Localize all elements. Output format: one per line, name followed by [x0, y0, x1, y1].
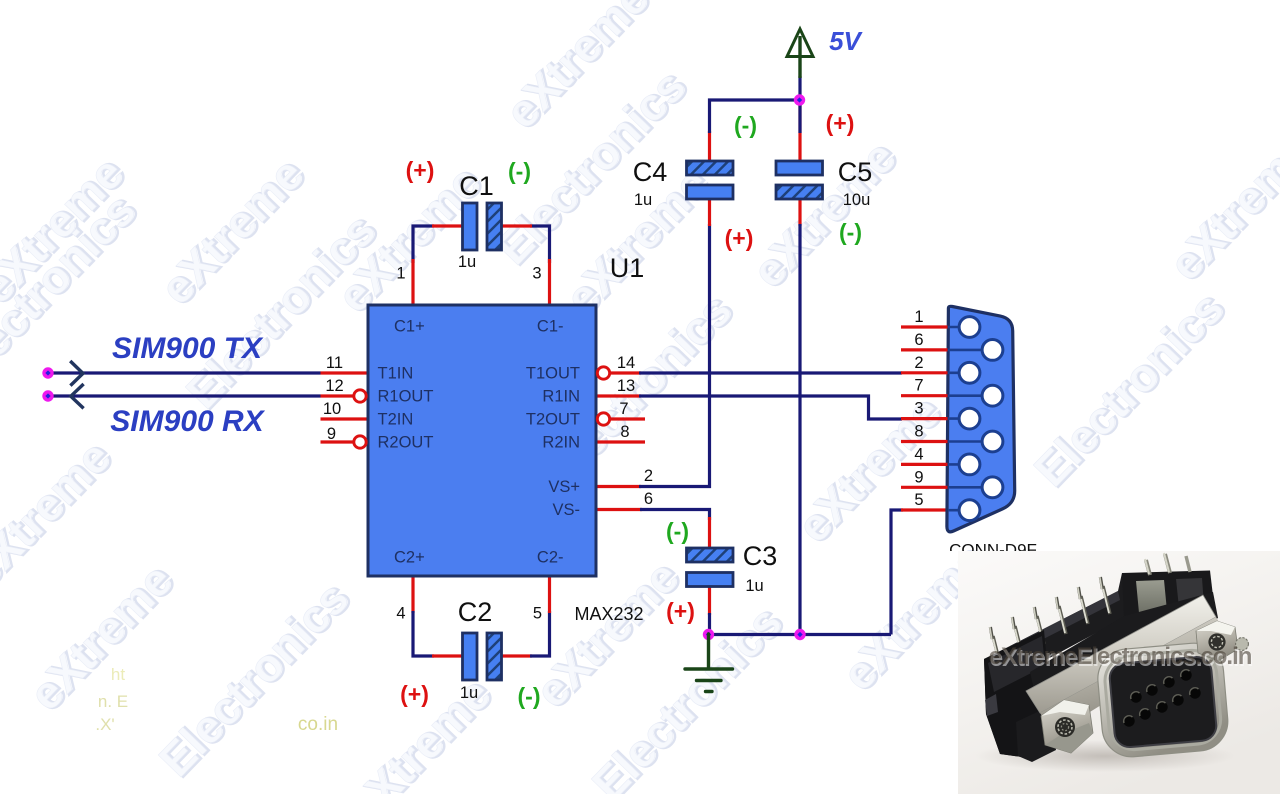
- pin stub DB9-6 (red): [901, 348, 948, 351]
- photo left block notch: [985, 694, 998, 716]
- svg-text:4: 4: [914, 445, 923, 463]
- capacitor C5 plate top: [776, 161, 823, 175]
- svg-text:C3: C3: [743, 541, 778, 571]
- svg-text:MAX232: MAX232: [574, 604, 643, 624]
- watermark Electronics: [149, 571, 361, 788]
- photo D-shell inner shade: [1103, 648, 1223, 751]
- svg-text:SIM900 RX: SIM900 RX: [110, 405, 265, 438]
- pin stub DB9-9 (red): [901, 486, 948, 489]
- capacitor C4 plate bottom: [687, 185, 734, 199]
- svg-text:co.in: co.in: [298, 714, 338, 735]
- svg-text:C1+: C1+: [394, 318, 425, 336]
- svg-text:(-): (-): [734, 112, 757, 138]
- svg-text:C2: C2: [458, 597, 493, 627]
- svg-text:1u: 1u: [745, 577, 763, 595]
- svg-text:SIM900 TX: SIM900 TX: [112, 332, 264, 365]
- watermark eXtreme: [787, 384, 953, 553]
- svg-text:1: 1: [914, 308, 923, 326]
- node SIM900 RX terminal: [42, 390, 53, 401]
- svg-text:n. E: n. E: [98, 692, 128, 711]
- svg-text:C1-: C1-: [537, 318, 564, 336]
- J1 pin 8 socket: [982, 431, 1003, 452]
- svg-text:5: 5: [914, 491, 923, 509]
- wire C2 right red: [501, 654, 532, 657]
- watermark eXtreme: [742, 129, 908, 298]
- pin stub 13 R1IN (red): [597, 394, 641, 397]
- pin stub 3 (red): [548, 259, 551, 305]
- pin stub 4 (red): [411, 577, 414, 613]
- J1 pin 1 socket: [959, 317, 980, 338]
- value label CONN-D9F (clipped by photo): [949, 541, 1037, 560]
- watermark eXtreme: [19, 552, 185, 721]
- watermark eXtreme: [0, 429, 122, 598]
- J1 pin 1 lead: [948, 326, 970, 329]
- junction 5V node: [794, 94, 805, 105]
- wire VS- red drop to C3: [708, 517, 711, 549]
- wire C4 top red: [708, 131, 711, 162]
- pin bubble 7 T2OUT: [597, 413, 609, 425]
- wire C5 to ground rail: [798, 224, 801, 635]
- pin stub 14 T1OUT (red): [610, 371, 641, 374]
- svg-text:5: 5: [533, 605, 542, 623]
- J1 pin 5 lead: [948, 509, 970, 512]
- wire C2 to pin5: [530, 611, 550, 656]
- photo watermark text: [989, 643, 1253, 672]
- watermark eXtreme: [327, 154, 493, 323]
- J1 pin 6 lead: [948, 349, 993, 352]
- svg-text:1u: 1u: [458, 253, 476, 271]
- watermark Electronics: [486, 59, 698, 276]
- capacitor C1 plate left: [463, 203, 478, 250]
- photo black body lower part: [1030, 592, 1218, 716]
- wire C3 to ground node: [708, 613, 711, 635]
- wire DB9 pin5 drop: [891, 510, 903, 635]
- pin stub DB9-1 (red): [901, 325, 948, 328]
- svg-text:R2IN: R2IN: [542, 434, 580, 452]
- pin stub DB9-5 (red): [901, 508, 948, 511]
- watermark eXtreme: [832, 532, 998, 701]
- svg-text:8: 8: [620, 423, 629, 441]
- watermark eXtreme: [525, 549, 691, 718]
- svg-text:(-): (-): [839, 219, 862, 245]
- svg-text:(+): (+): [406, 157, 435, 183]
- svg-text:(+): (+): [725, 225, 754, 251]
- J1 pin 7 lead: [948, 394, 993, 397]
- J1 pin 7 socket: [982, 385, 1003, 406]
- photo D-shell ring: [1095, 641, 1230, 760]
- wire pin1 to C1: [413, 226, 434, 263]
- photo left block facet: [988, 636, 1045, 692]
- J1 pin 2 lead: [948, 371, 970, 374]
- wire T1OUT to DB9 pin2: [639, 371, 902, 374]
- pin bubble 14 T1OUT: [597, 367, 609, 379]
- J1 pin 6 socket: [982, 340, 1003, 361]
- photo shadow: [975, 740, 1235, 772]
- svg-text:(-): (-): [666, 518, 689, 544]
- watermark eXtreme: [337, 666, 503, 794]
- pin stub DB9-3 (red): [901, 417, 948, 420]
- power symbol 5V: [787, 29, 813, 78]
- photo black rear block: [1121, 571, 1213, 619]
- photo black band top facet: [1010, 591, 1120, 654]
- watermark Electronics: [582, 595, 794, 794]
- watermark Electronics: [176, 203, 388, 420]
- svg-text:C4: C4: [633, 157, 668, 187]
- svg-text:C5: C5: [838, 157, 873, 187]
- svg-text:VS+: VS+: [548, 478, 580, 496]
- svg-text:C2-: C2-: [537, 549, 564, 567]
- ground symbol: [685, 634, 733, 692]
- svg-text:5V: 5V: [829, 26, 863, 56]
- svg-text:6: 6: [914, 331, 923, 349]
- svg-text:3: 3: [914, 400, 923, 418]
- node SIM900 TX terminal: [42, 367, 53, 378]
- watermark eXtreme: [0, 145, 135, 314]
- wire C5 top red: [798, 98, 801, 162]
- watermark eXtreme: [150, 146, 316, 315]
- svg-text:4: 4: [396, 605, 405, 623]
- wire 5V to C4 corner: [710, 100, 801, 133]
- op-amp U1 MAX232 body: [368, 305, 596, 576]
- svg-text:R2OUT: R2OUT: [378, 434, 434, 452]
- wire R1IN to DB9 pin3: [639, 396, 902, 419]
- pin stub 5 (red): [548, 577, 551, 613]
- photo black face bevel: [1109, 656, 1218, 749]
- svg-text:11: 11: [326, 354, 343, 372]
- wire C3 bottom red: [708, 586, 711, 615]
- svg-text:10: 10: [323, 400, 341, 418]
- svg-text:12: 12: [325, 377, 343, 395]
- wire C4 bottom red: [708, 198, 711, 226]
- svg-text:6: 6: [644, 490, 653, 508]
- svg-text:9: 9: [914, 468, 923, 486]
- J1 pin 3 lead: [948, 417, 970, 420]
- svg-text:C2+: C2+: [394, 549, 425, 567]
- photo bottom foot: [1016, 706, 1056, 762]
- wire C5 top navy over: [798, 98, 801, 133]
- J1 pin 4 lead: [948, 463, 970, 466]
- pin stub DB9-8 (red): [901, 440, 948, 443]
- svg-text:1u: 1u: [460, 684, 478, 702]
- svg-text:3: 3: [532, 265, 541, 283]
- svg-text:T1OUT: T1OUT: [526, 365, 580, 383]
- svg-text:R1IN: R1IN: [542, 388, 580, 406]
- wire SIM900 RX net: [48, 394, 321, 397]
- pin stub 12 R1OUT (red): [321, 394, 355, 397]
- svg-text:1u: 1u: [634, 191, 652, 209]
- svg-text:U1: U1: [610, 253, 645, 283]
- watermark Electronics: [1024, 281, 1236, 498]
- pin stub 10 T2IN (red): [321, 417, 367, 420]
- svg-text:ht: ht: [111, 665, 125, 684]
- junction ground node B: [794, 629, 805, 640]
- wire pin4 to C2: [413, 611, 434, 656]
- pin stub 11 T1IN (red): [321, 371, 367, 374]
- photo left jack screw: [1041, 700, 1093, 753]
- pin stub DB9-4 (red): [901, 463, 948, 466]
- svg-text:7: 7: [619, 400, 628, 418]
- pin stub 9 R2OUT (red): [321, 440, 355, 443]
- watermark eXtreme: [1159, 122, 1280, 291]
- watermark Electronics: [0, 183, 147, 400]
- pin stub 2 VS+ (red): [597, 485, 641, 488]
- photo rear slot dark: [1176, 578, 1204, 608]
- J1 pin 9 lead: [948, 486, 993, 489]
- photo black pin band: [984, 573, 1124, 757]
- J1 pin 8 lead: [948, 440, 993, 443]
- svg-text:2: 2: [644, 467, 653, 485]
- svg-text:C1: C1: [459, 171, 494, 201]
- watermark Electronics: [532, 283, 744, 500]
- pin stub 8 R2IN (red): [597, 440, 645, 443]
- photo left black block: [984, 630, 1052, 757]
- J1 pin 5 socket: [959, 500, 980, 521]
- svg-text:T2IN: T2IN: [378, 411, 414, 429]
- photo metal shell wedge: [1040, 617, 1225, 728]
- pin stub 7 T2OUT (red): [610, 417, 645, 420]
- wire C1 right red: [501, 224, 532, 227]
- wire VS- to C3: [640, 510, 710, 521]
- photo face holes: [1123, 669, 1200, 726]
- J1 pin 9 socket: [982, 477, 1003, 498]
- wire C2 left red: [432, 654, 463, 657]
- svg-text:eXtremeElectronics.co.in: eXtremeElectronics.co.in: [989, 643, 1252, 670]
- svg-text:2: 2: [914, 354, 923, 372]
- pin stub 1 (red): [411, 259, 414, 305]
- photo black face: [1109, 656, 1218, 749]
- svg-text:10u: 10u: [843, 191, 871, 209]
- pin stub DB9-2 (red): [901, 371, 948, 374]
- junction ground node A: [703, 629, 714, 640]
- svg-text:9: 9: [327, 425, 336, 443]
- pin stub 6 VS- (red): [597, 508, 642, 511]
- capacitor C3 plate bottom: [687, 573, 734, 587]
- pin stub DB9-7 (red): [901, 394, 948, 397]
- svg-text:VS-: VS-: [552, 501, 580, 519]
- svg-text:.X': .X': [95, 715, 114, 734]
- svg-text:14: 14: [617, 354, 635, 372]
- arrow on RX wire: [71, 384, 84, 408]
- svg-text:(-): (-): [518, 683, 541, 709]
- J1 pin 3 socket: [959, 408, 980, 429]
- J1 pin 2 socket: [959, 362, 980, 383]
- wire C1 to pin3: [530, 226, 550, 263]
- svg-text:(+): (+): [400, 681, 429, 707]
- svg-text:8: 8: [914, 423, 923, 441]
- connector J1 CONN-D9F body: [947, 306, 1015, 532]
- capacitor C2 plate left: [463, 633, 478, 680]
- svg-text:7: 7: [914, 377, 923, 395]
- wire C1 left red: [432, 224, 463, 227]
- J1 pin 4 socket: [959, 454, 980, 475]
- arrow on TX wire: [70, 361, 83, 386]
- photo pins: [990, 553, 1190, 664]
- svg-text:T1IN: T1IN: [378, 365, 414, 383]
- wire SIM900 TX net: [48, 371, 321, 374]
- svg-text:(+): (+): [826, 110, 855, 136]
- wire 5V stem navy: [798, 76, 801, 100]
- wire VS+ to C4: [639, 224, 710, 487]
- wire C5 bottom red: [798, 198, 801, 226]
- svg-text:R1OUT: R1OUT: [378, 388, 434, 406]
- photo right jack screw: [1196, 621, 1249, 661]
- svg-text:1: 1: [396, 265, 405, 283]
- watermark eXtreme: [495, 0, 661, 139]
- svg-text:(+): (+): [666, 598, 695, 624]
- watermark eXtreme: [555, 156, 721, 325]
- svg-text:(-): (-): [508, 158, 531, 184]
- photo rear slot light: [1136, 580, 1167, 613]
- svg-text:T2OUT: T2OUT: [526, 411, 580, 429]
- svg-text:13: 13: [617, 377, 635, 395]
- wire ground rail: [709, 633, 892, 636]
- photo background: [958, 551, 1280, 794]
- pin bubble 12 R1OUT: [354, 390, 366, 402]
- photo metal flange: [1026, 595, 1216, 713]
- pin bubble 9 R2OUT: [354, 436, 366, 448]
